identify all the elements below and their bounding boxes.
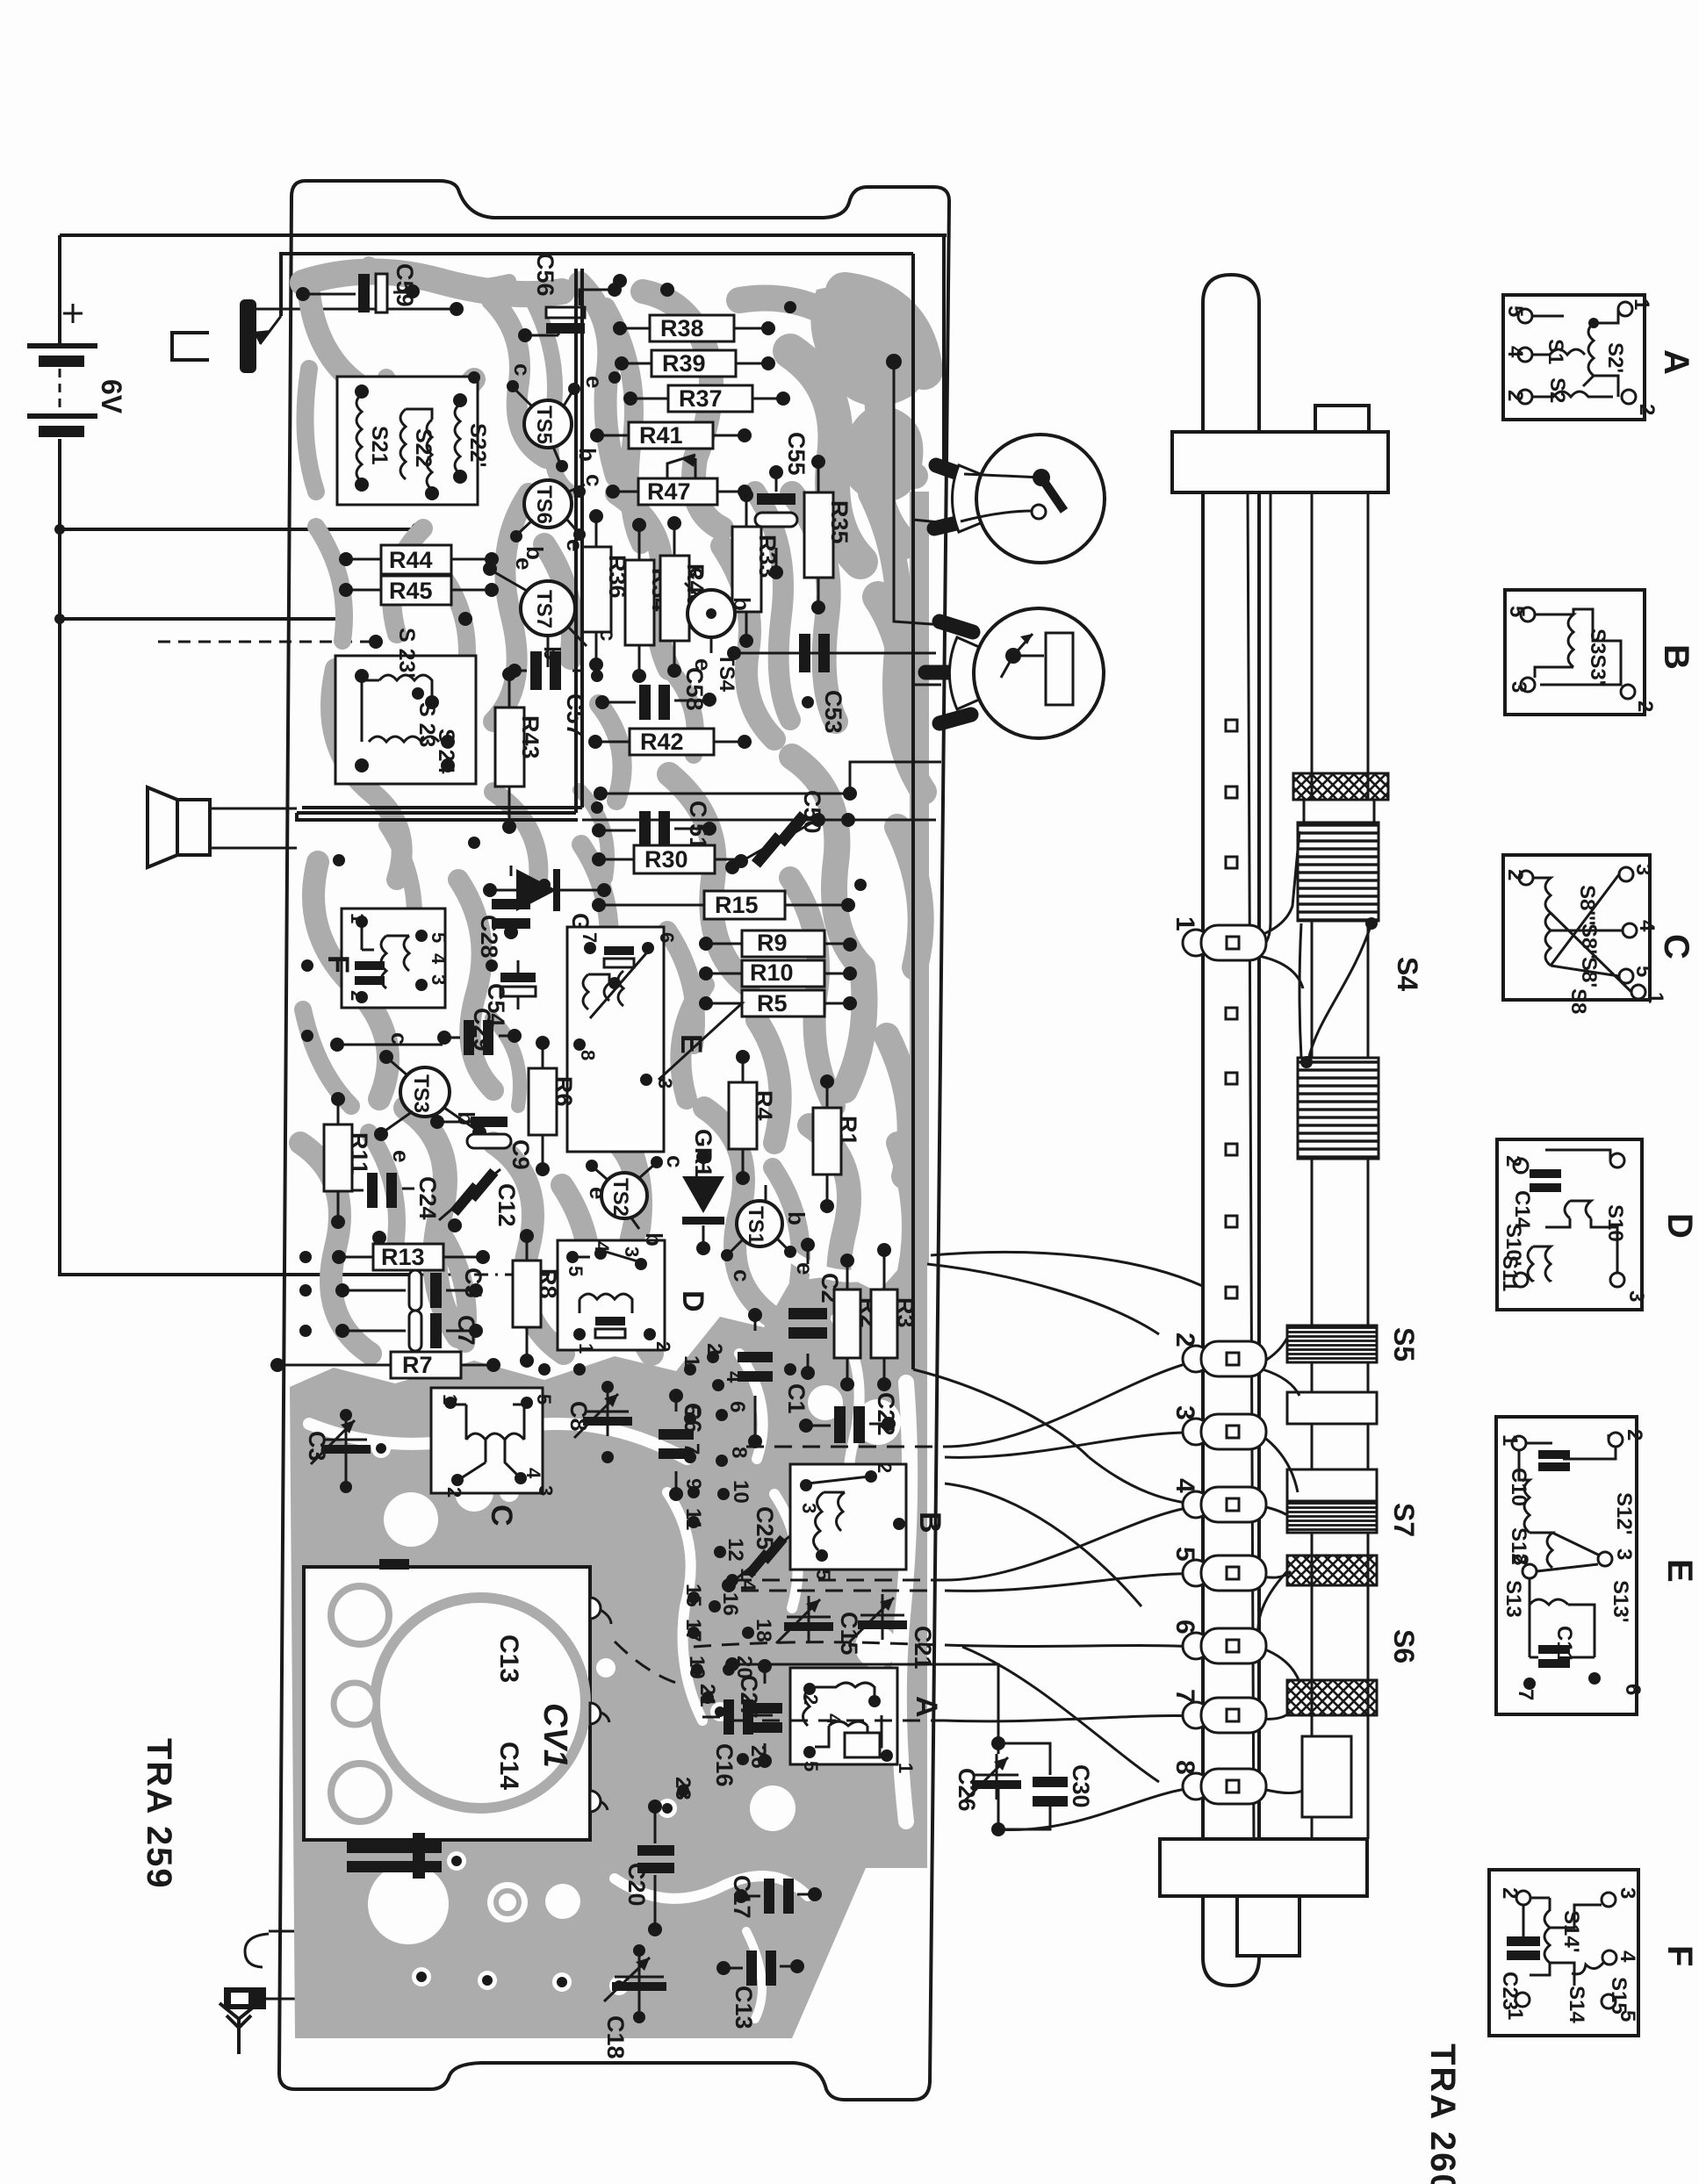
coil S4 upper winding [1298, 823, 1379, 921]
svg-text:3: 3 [798, 1503, 820, 1513]
capacitor C56 [518, 253, 622, 342]
transistor TS6 [510, 474, 608, 560]
strip holes [1226, 720, 1237, 1298]
svg-text:6V: 6V [96, 379, 127, 414]
svg-text:3: 3 [1507, 681, 1530, 693]
resistor R34 [625, 518, 673, 683]
resistor R9 [699, 930, 857, 957]
svg-text:R4: R4 [751, 1090, 777, 1121]
coil detail box E [1496, 1417, 1699, 1714]
svg-text:S8'': S8'' [1577, 923, 1601, 959]
svg-text:S15: S15 [1607, 1977, 1631, 2015]
svg-text:2: 2 [1623, 1429, 1646, 1440]
svg-text:3: 3 [654, 1078, 676, 1088]
svg-text:3: 3 [1616, 1887, 1639, 1899]
wire right-edge vertical 2 [913, 254, 957, 1369]
svg-text:D: D [1660, 1213, 1699, 1239]
wire dash-dot segment [413, 1268, 568, 1281]
coil box D [558, 1240, 709, 1354]
svg-text:e: e [511, 557, 537, 570]
svg-text:C58: C58 [681, 667, 708, 711]
svg-text:C: C [1657, 934, 1695, 959]
svg-text:S6: S6 [1388, 1629, 1420, 1663]
svg-text:TS3: TS3 [409, 1074, 433, 1113]
capacitor C12 [439, 1168, 520, 1232]
svg-text:S21: S21 [367, 426, 392, 465]
capacitor C22 [799, 1392, 899, 1443]
capacitor C16 [702, 1699, 773, 1787]
diode GR1 [682, 1129, 724, 1255]
svg-text:1: 1 [895, 1763, 917, 1773]
svg-text:TS7: TS7 [532, 590, 556, 629]
svg-text:1: 1 [1170, 916, 1199, 931]
svg-text:C55: C55 [783, 432, 810, 476]
slab pads with white rings [371, 1360, 730, 1995]
svg-text:TS5: TS5 [532, 406, 556, 444]
coil box F [321, 909, 450, 1008]
svg-text:C20: C20 [623, 1863, 650, 1907]
svg-text:4: 4 [522, 1468, 544, 1479]
capacitor C2 [788, 1238, 843, 1380]
capacitor C9 [430, 1115, 534, 1170]
dashed net lines [615, 1447, 945, 1721]
coil detail box D [1497, 1139, 1699, 1310]
svg-text:S5: S5 [1388, 1327, 1420, 1361]
resistor R5 [659, 990, 857, 1080]
svg-text:R1: R1 [835, 1116, 861, 1146]
svg-text:6: 6 [1621, 1684, 1645, 1695]
svg-text:F: F [321, 955, 355, 973]
potentiometer (volume) [240, 299, 464, 373]
svg-text:F: F [1660, 1945, 1699, 1966]
svg-text:S14': S14' [1559, 1910, 1583, 1952]
svg-text:S3S3': S3S3' [1586, 629, 1609, 685]
capacitor C50 [725, 790, 936, 874]
shaft crosshatch band 1 [1293, 773, 1388, 800]
transistor TS2 [585, 1155, 688, 1246]
svg-text:S4: S4 [1392, 957, 1423, 991]
resistor R37 [623, 385, 790, 412]
svg-text:5: 5 [1505, 606, 1529, 617]
coil former [1304, 800, 1374, 823]
coil box C [431, 1388, 557, 1527]
capacitor C29 [437, 1008, 522, 1055]
svg-text:C30: C30 [1068, 1764, 1094, 1808]
svg-text:11: 11 [681, 1508, 705, 1530]
svg-text:S2': S2' [1603, 342, 1627, 373]
svg-text:2: 2 [1498, 1887, 1522, 1899]
transistor TS7 [458, 557, 622, 667]
wire to board node2 [54, 612, 352, 626]
svg-text:R37: R37 [679, 385, 723, 412]
capacitor C30 [998, 1743, 1094, 1829]
svg-text:C26: C26 [954, 1768, 980, 1812]
svg-text:7: 7 [1170, 1689, 1199, 1704]
eyelet 5 [1170, 1547, 1266, 1591]
svg-text:4: 4 [1616, 1951, 1639, 1963]
svg-text:23: 23 [671, 1777, 695, 1800]
svg-text:18: 18 [752, 1619, 775, 1642]
svg-text:C50: C50 [799, 790, 825, 834]
svg-text:4: 4 [1635, 920, 1659, 932]
svg-text:2: 2 [1635, 404, 1659, 415]
svg-text:B: B [913, 1512, 947, 1534]
svg-text:5: 5 [1503, 305, 1527, 317]
capacitor C5 [335, 1268, 486, 1311]
svg-text:R35: R35 [826, 500, 853, 544]
transistor TS4 [685, 567, 755, 693]
svg-text:1: 1 [680, 1355, 703, 1367]
svg-text:6: 6 [1170, 1620, 1199, 1634]
tuning meter control [925, 608, 1104, 738]
wire right-edge vertical 1 [944, 235, 968, 471]
resistor R39 [615, 350, 775, 377]
capacitor C58 [595, 667, 716, 720]
wire r42 to right [850, 762, 941, 781]
copper traces gray pattern [300, 271, 929, 1354]
eyelet 8 [1170, 1760, 1266, 1804]
resistor R44 [339, 545, 499, 574]
label S6 [1388, 1629, 1420, 1663]
svg-text:C5: C5 [460, 1268, 486, 1298]
resistor R7 [270, 1352, 500, 1378]
svg-text:S 24: S 24 [434, 729, 458, 774]
capacitor C20 [623, 1800, 674, 1936]
svg-text:12: 12 [724, 1538, 747, 1562]
svg-text:1: 1 [1644, 992, 1667, 1003]
wire to C26 [725, 1657, 1005, 1750]
svg-text:TS1: TS1 [744, 1206, 767, 1245]
svg-text:GR1: GR1 [690, 1129, 716, 1178]
resistor R4 [729, 1050, 777, 1185]
transistor TS3 [374, 1032, 486, 1162]
resistor R47 [606, 455, 752, 505]
eyelet 1 [1170, 916, 1266, 960]
svg-text:C56: C56 [532, 253, 558, 297]
svg-text:R47: R47 [647, 478, 691, 505]
svg-text:5: 5 [533, 1394, 555, 1405]
svg-text:S10: S10 [1603, 1204, 1627, 1242]
svg-text:S12': S12' [1612, 1492, 1636, 1534]
coil detail box F [1489, 1870, 1699, 2036]
svg-text:C59: C59 [392, 263, 418, 307]
coil box E [567, 927, 708, 1152]
svg-text:8: 8 [1170, 1760, 1199, 1775]
wire S4 windings link [1299, 917, 1378, 1068]
svg-text:C53: C53 [820, 690, 846, 734]
coil former 2 [1287, 1392, 1377, 1424]
svg-text:S2: S2 [1545, 377, 1569, 403]
svg-text:S 23': S 23' [394, 628, 419, 678]
svg-text:5: 5 [1170, 1547, 1199, 1562]
svg-text:c: c [729, 1269, 755, 1282]
coil S5 winding [1287, 1325, 1377, 1362]
svg-text:S14: S14 [1565, 1986, 1588, 2023]
svg-text:e: e [388, 1150, 414, 1162]
svg-text:4: 4 [1170, 1478, 1199, 1493]
svg-text:b: b [641, 1232, 667, 1246]
svg-text:4: 4 [1503, 346, 1527, 358]
svg-text:5: 5 [428, 932, 450, 943]
resistor R38 [613, 315, 775, 341]
wire dashed stub [158, 635, 383, 649]
svg-text:C24: C24 [414, 1176, 441, 1220]
trimmer screws under CV1 [347, 1833, 442, 1879]
slab white channels [309, 1318, 880, 2019]
wire long horizontal node [594, 781, 857, 801]
svg-text:9: 9 [681, 1478, 705, 1490]
svg-text:S22': S22' [465, 423, 490, 467]
svg-text:7: 7 [579, 932, 601, 943]
svg-text:C14: C14 [494, 1742, 523, 1790]
svg-text:C11: C11 [1552, 1626, 1576, 1663]
svg-text:C1: C1 [783, 1383, 810, 1414]
svg-text:C23: C23 [1498, 1972, 1522, 2010]
svg-text:1: 1 [439, 1394, 461, 1405]
wire TS4 to meter [734, 652, 936, 655]
wire node row [330, 1038, 443, 1052]
resistor R33 [732, 488, 781, 648]
svg-text:7: 7 [1514, 1689, 1537, 1700]
svg-text:R38: R38 [660, 315, 704, 341]
resistor R36 [582, 509, 630, 672]
svg-text:2: 2 [1503, 869, 1527, 880]
coil S4 lower winding [1298, 1058, 1379, 1159]
capacitor C17 [729, 1875, 822, 1919]
svg-text:R39: R39 [662, 350, 706, 377]
svg-text:R13: R13 [381, 1244, 425, 1270]
svg-text:R6: R6 [551, 1076, 577, 1107]
svg-text:21: 21 [695, 1684, 719, 1707]
tuning shaft [1312, 492, 1368, 1839]
svg-text:1: 1 [347, 913, 369, 923]
capacitor C13b [716, 1951, 804, 2030]
svg-text:R11: R11 [346, 1132, 372, 1175]
coil detail box A [1503, 295, 1695, 420]
svg-text:R9: R9 [757, 930, 788, 956]
coil detail box C [1503, 855, 1695, 1014]
svg-text:10: 10 [729, 1480, 752, 1504]
svg-text:3: 3 [535, 1485, 557, 1496]
svg-text:2: 2 [702, 1343, 726, 1354]
capacitor C28 [476, 866, 530, 959]
svg-text:CV1: CV1 [536, 1703, 573, 1768]
resistor R40 [660, 516, 709, 678]
svg-text:S22: S22 [411, 428, 436, 467]
capacitor C53 [727, 634, 934, 734]
svg-text:e: e [585, 1187, 611, 1199]
svg-text:D: D [676, 1290, 709, 1312]
eyelet 3 [1170, 1405, 1266, 1449]
coil box A [790, 1668, 943, 1773]
resistor R3 [871, 1243, 918, 1391]
resistor R42 [588, 729, 752, 755]
resistor R1 [813, 1074, 861, 1213]
resistor R6 [529, 1036, 577, 1176]
antenna jack [224, 1934, 349, 2009]
svg-text:C13: C13 [494, 1634, 523, 1683]
speaker [148, 787, 297, 867]
svg-text:C13: C13 [731, 1986, 757, 2030]
wires eyelets to shaft [1258, 1338, 1302, 1793]
svg-text:4: 4 [722, 1371, 745, 1383]
coil former 3 [1287, 1469, 1377, 1501]
svg-text:R15: R15 [715, 892, 759, 918]
wire eyelet1 to S4 [1240, 831, 1303, 988]
svg-text:C12: C12 [493, 1183, 520, 1227]
wire jack to C17 [269, 1898, 738, 1931]
svg-text:2: 2 [652, 1341, 674, 1352]
svg-text:b: b [783, 1211, 810, 1225]
dial cord rod [1261, 492, 1271, 948]
svg-text:C: C [685, 801, 711, 818]
wires board to eyelets [913, 1252, 1212, 1829]
coil box B [790, 1462, 947, 1580]
svg-text:R10: R10 [750, 959, 794, 986]
wire battery top loop [60, 235, 947, 343]
svg-text:3: 3 [428, 974, 450, 985]
svg-text:3: 3 [1612, 1548, 1636, 1560]
svg-text:5: 5 [1631, 966, 1655, 977]
label S5 [1388, 1327, 1420, 1361]
svg-text:19: 19 [685, 1656, 709, 1679]
svg-text:A: A [910, 1696, 943, 1718]
eyelet 2 [1170, 1333, 1266, 1376]
shield wire bottom [297, 808, 855, 827]
wire battery negative down [60, 439, 413, 1275]
trimmer C18 [602, 1944, 666, 2059]
wire second top loop [281, 254, 913, 316]
coil detail box B [1505, 590, 1695, 715]
wire to board node [54, 522, 425, 536]
label TRA 260 [1423, 2044, 1462, 2184]
svg-text:2: 2 [1633, 700, 1657, 712]
battery 6V [27, 304, 127, 437]
svg-text:C28: C28 [476, 915, 502, 959]
svg-text:C9: C9 [508, 1139, 534, 1170]
coil box S23 S24 [335, 628, 476, 784]
capacitor C59 [296, 263, 420, 313]
svg-text:2: 2 [800, 1694, 822, 1705]
svg-text:8: 8 [577, 1050, 599, 1060]
svg-text:R44: R44 [389, 547, 433, 573]
transistor TS5 [507, 363, 608, 472]
svg-text:S8: S8 [1566, 988, 1590, 1014]
svg-text:c: c [386, 1032, 413, 1045]
volume control [934, 435, 1105, 563]
resistor R45 [339, 576, 499, 605]
trimmer C8 [565, 1381, 632, 1463]
wire meter lower pin [913, 684, 941, 686]
svg-text:S8''': S8''' [1575, 885, 1599, 925]
resistor R10 [699, 959, 857, 987]
svg-text:e: e [581, 376, 608, 388]
svg-text:c: c [662, 1155, 688, 1167]
dial pointer strip [1203, 275, 1259, 1986]
transistor TS1 [721, 1185, 818, 1282]
resistor R11 [324, 1092, 372, 1229]
svg-text:S11: S11 [1498, 1255, 1522, 1291]
svg-text:C18: C18 [602, 2015, 629, 2059]
svg-text:C25: C25 [752, 1506, 778, 1550]
svg-text:C16: C16 [711, 1743, 738, 1787]
svg-text:2: 2 [443, 1487, 465, 1498]
resistor R35 [804, 455, 853, 614]
coil box S21 S22 [337, 377, 490, 505]
resistor R15 [592, 891, 855, 919]
svg-text:C21: C21 [910, 1626, 936, 1670]
stray pads top area [299, 274, 867, 1376]
eyelet 7 [1170, 1689, 1266, 1733]
svg-text:5: 5 [680, 1405, 703, 1416]
svg-text:3: 3 [1170, 1405, 1199, 1420]
eyelet 4 [1170, 1478, 1266, 1522]
capacitor C24 [351, 1173, 441, 1245]
capacitor C7 [335, 1311, 483, 1351]
node numbers column [671, 1343, 775, 1800]
svg-text:c: c [509, 363, 536, 376]
svg-text:5: 5 [565, 1266, 587, 1276]
svg-text:A: A [1657, 349, 1695, 375]
svg-text:E: E [1660, 1559, 1699, 1583]
svg-text:C: C [485, 1505, 518, 1527]
resistor R8 [513, 1229, 561, 1368]
svg-text:R7: R7 [402, 1352, 433, 1378]
svg-text:b: b [729, 597, 755, 611]
svg-text:R45: R45 [389, 578, 433, 604]
svg-text:1: 1 [1498, 1434, 1522, 1446]
svg-text:5: 5 [800, 1761, 822, 1771]
capacitor C54 [483, 960, 536, 1027]
coil S7 winding [1287, 1501, 1377, 1533]
svg-text:C3: C3 [304, 1431, 330, 1462]
wire pad to tuning control [886, 354, 944, 625]
wire crossing curves [945, 1457, 1198, 1782]
svg-text:S8': S8' [1577, 957, 1601, 988]
capacitor C1 [738, 1308, 810, 1448]
resistor R13 [332, 1244, 490, 1270]
slab white margin near edge [790, 1255, 910, 1821]
svg-text:e: e [792, 1262, 818, 1275]
svg-text:3: 3 [1631, 864, 1655, 875]
svg-text:C29: C29 [469, 1008, 495, 1052]
connector bracket [172, 333, 209, 360]
svg-text:2: 2 [874, 1462, 896, 1473]
shaft crosshatch band 2 [1287, 1555, 1377, 1585]
bottom bracket [1160, 1839, 1367, 1956]
svg-text:8: 8 [727, 1447, 751, 1458]
svg-text:3: 3 [1624, 1290, 1648, 1302]
diode GR2 [483, 869, 611, 962]
label S7 [1388, 1503, 1420, 1537]
svg-text:6: 6 [725, 1401, 749, 1412]
svg-text:TRA 260: TRA 260 [1423, 2044, 1462, 2184]
svg-text:TS2: TS2 [608, 1178, 632, 1217]
capacitor C6 [659, 1389, 706, 1501]
shaft crosshatch band 3 [1287, 1680, 1377, 1715]
tuning gang CV1 box [304, 1559, 611, 1840]
svg-text:S1: S1 [1544, 339, 1567, 364]
svg-text:TS6: TS6 [532, 485, 556, 524]
svg-text:1: 1 [1503, 2008, 1527, 2020]
shaft tail [1302, 1736, 1351, 1817]
svg-text:2: 2 [1170, 1333, 1199, 1347]
trimmer C15 [776, 1596, 862, 1656]
svg-text:4: 4 [428, 953, 450, 965]
svg-text:S13': S13' [1609, 1580, 1632, 1622]
svg-text:c: c [581, 474, 608, 486]
capacitor C55 [755, 432, 810, 579]
